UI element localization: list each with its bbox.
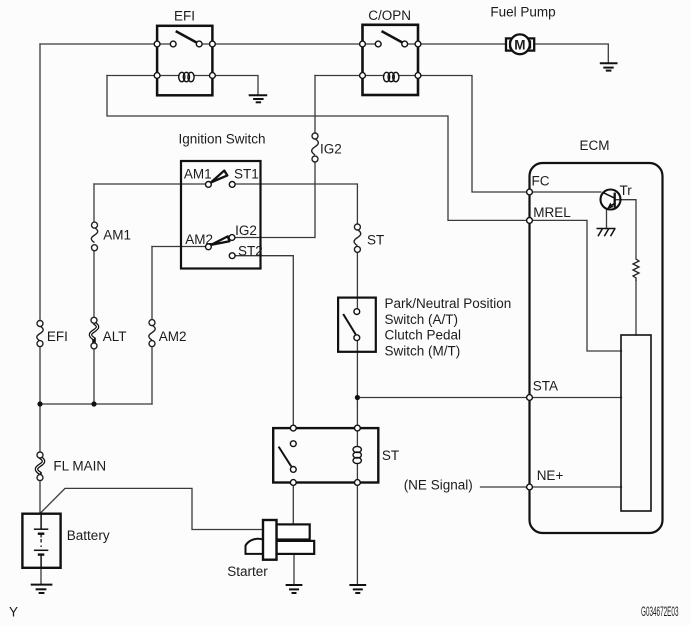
svg-text:ST: ST <box>382 448 399 463</box>
svg-text:FC: FC <box>532 173 550 188</box>
svg-text:ST2: ST2 <box>238 243 263 258</box>
svg-text:EFI: EFI <box>174 9 195 24</box>
svg-text:AM2: AM2 <box>185 232 213 247</box>
svg-text:ST1: ST1 <box>234 167 259 182</box>
svg-text:AM2: AM2 <box>159 329 187 344</box>
svg-text:Park/Neutral Position: Park/Neutral Position <box>385 296 512 311</box>
svg-text:FL MAIN: FL MAIN <box>53 458 106 473</box>
svg-text:Clutch Pedal: Clutch Pedal <box>385 328 462 343</box>
svg-text:EFI: EFI <box>47 329 68 344</box>
svg-text:AM1: AM1 <box>103 228 131 243</box>
svg-text:ECM: ECM <box>580 138 610 153</box>
svg-text:IG2: IG2 <box>235 223 257 238</box>
svg-text:G034672E03: G034672E03 <box>641 604 679 619</box>
svg-text:MREL: MREL <box>533 205 571 220</box>
svg-text:Tr: Tr <box>620 183 633 198</box>
svg-text:Switch (M/T): Switch (M/T) <box>385 343 461 358</box>
svg-text:(NE Signal): (NE Signal) <box>404 478 473 493</box>
svg-text:M: M <box>514 37 525 52</box>
svg-text:IG2: IG2 <box>320 142 342 157</box>
svg-text:Y: Y <box>9 605 18 620</box>
svg-text:ALT: ALT <box>103 329 127 344</box>
svg-text:C/OPN: C/OPN <box>368 8 411 23</box>
svg-text:NE+: NE+ <box>537 468 564 483</box>
svg-text:STA: STA <box>533 379 558 394</box>
svg-text:ST: ST <box>367 233 384 248</box>
svg-text:Starter: Starter <box>227 564 268 579</box>
svg-text:Battery: Battery <box>67 528 110 543</box>
svg-text:AM1: AM1 <box>184 166 212 181</box>
svg-text:Switch (A/T): Switch (A/T) <box>385 312 459 327</box>
svg-text:Ignition Switch: Ignition Switch <box>179 132 266 147</box>
svg-text:Fuel Pump: Fuel Pump <box>490 5 555 20</box>
